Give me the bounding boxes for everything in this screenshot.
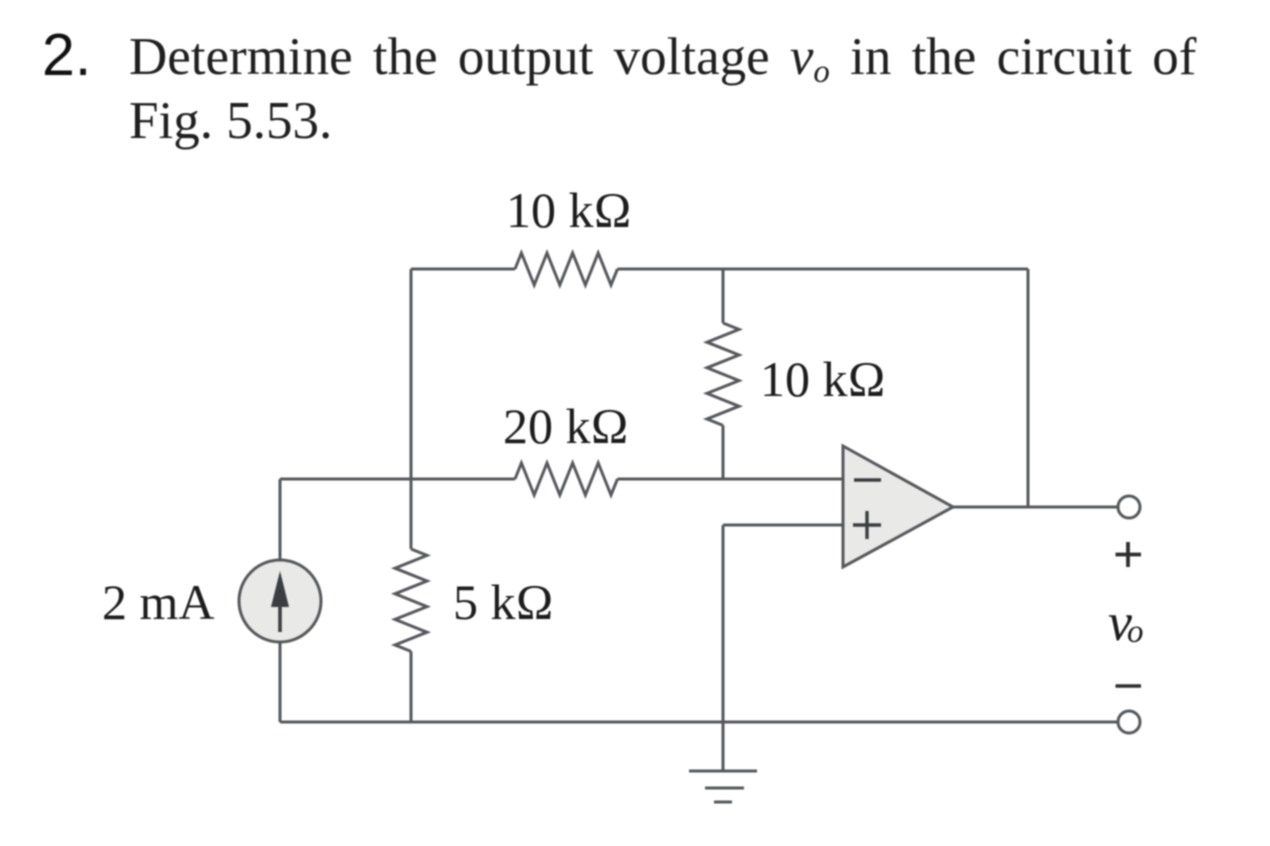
- wire noninverting input vertical to ground: [722, 525, 725, 771]
- ground: [689, 771, 757, 802]
- wire current source bottom lead: [279, 642, 282, 722]
- op-amp U1 triangle: [843, 446, 953, 567]
- wire inverting input right (R2 to op-amp minus input): [618, 478, 844, 481]
- current source I1 circle: [239, 560, 321, 642]
- resistor R4 5 kOhm (vertical left): [395, 549, 427, 651]
- resistor R1 10 kOhm (top feedback): [515, 253, 618, 285]
- svg-text:20 kΩ: 20 kΩ: [503, 398, 629, 454]
- wire inverting input left (current source to R2): [280, 478, 515, 481]
- wire left branch upper (top node down to R4): [410, 269, 413, 549]
- wire right feedback vertical: [1027, 269, 1030, 507]
- wire noninverting input horizontal: [723, 524, 843, 527]
- wire middle branch upper (top node to R3): [722, 269, 725, 323]
- wire bottom node: [280, 721, 1118, 724]
- svg-text:2 mA: 2 mA: [102, 574, 215, 630]
- resistor R3 10 kOhm (vertical middle): [707, 323, 739, 425]
- wire top-left (left branch to R1): [411, 268, 515, 271]
- wire middle branch lower (R3 to inverting node): [722, 425, 725, 479]
- current source I1 arrow: [271, 571, 289, 632]
- label output plus sign: [1116, 542, 1142, 567]
- svg-text:10 kΩ: 10 kΩ: [506, 182, 632, 238]
- wire top-right (R1 to right branch): [618, 268, 1029, 271]
- resistor R2 20 kOhm (series input): [515, 463, 618, 495]
- svg-text:10 kΩ: 10 kΩ: [760, 351, 886, 407]
- wire current source top lead: [279, 479, 282, 560]
- output terminal bottom: [1118, 711, 1140, 733]
- svg-text:vo: vo: [1108, 592, 1143, 652]
- wire op-amp output: [953, 506, 1118, 509]
- problem text line 2: [129, 91, 332, 151]
- op-amp plus input symbol: [853, 511, 881, 539]
- op-amp minus input symbol: [854, 478, 881, 481]
- problem number 2.: [42, 21, 91, 89]
- wire left branch lower (R4 to bottom node): [410, 651, 413, 722]
- problem text line 1: [129, 27, 1196, 91]
- label output minus sign: [1116, 684, 1142, 688]
- svg-text:5 kΩ: 5 kΩ: [453, 574, 554, 630]
- output terminal top: [1118, 496, 1140, 518]
